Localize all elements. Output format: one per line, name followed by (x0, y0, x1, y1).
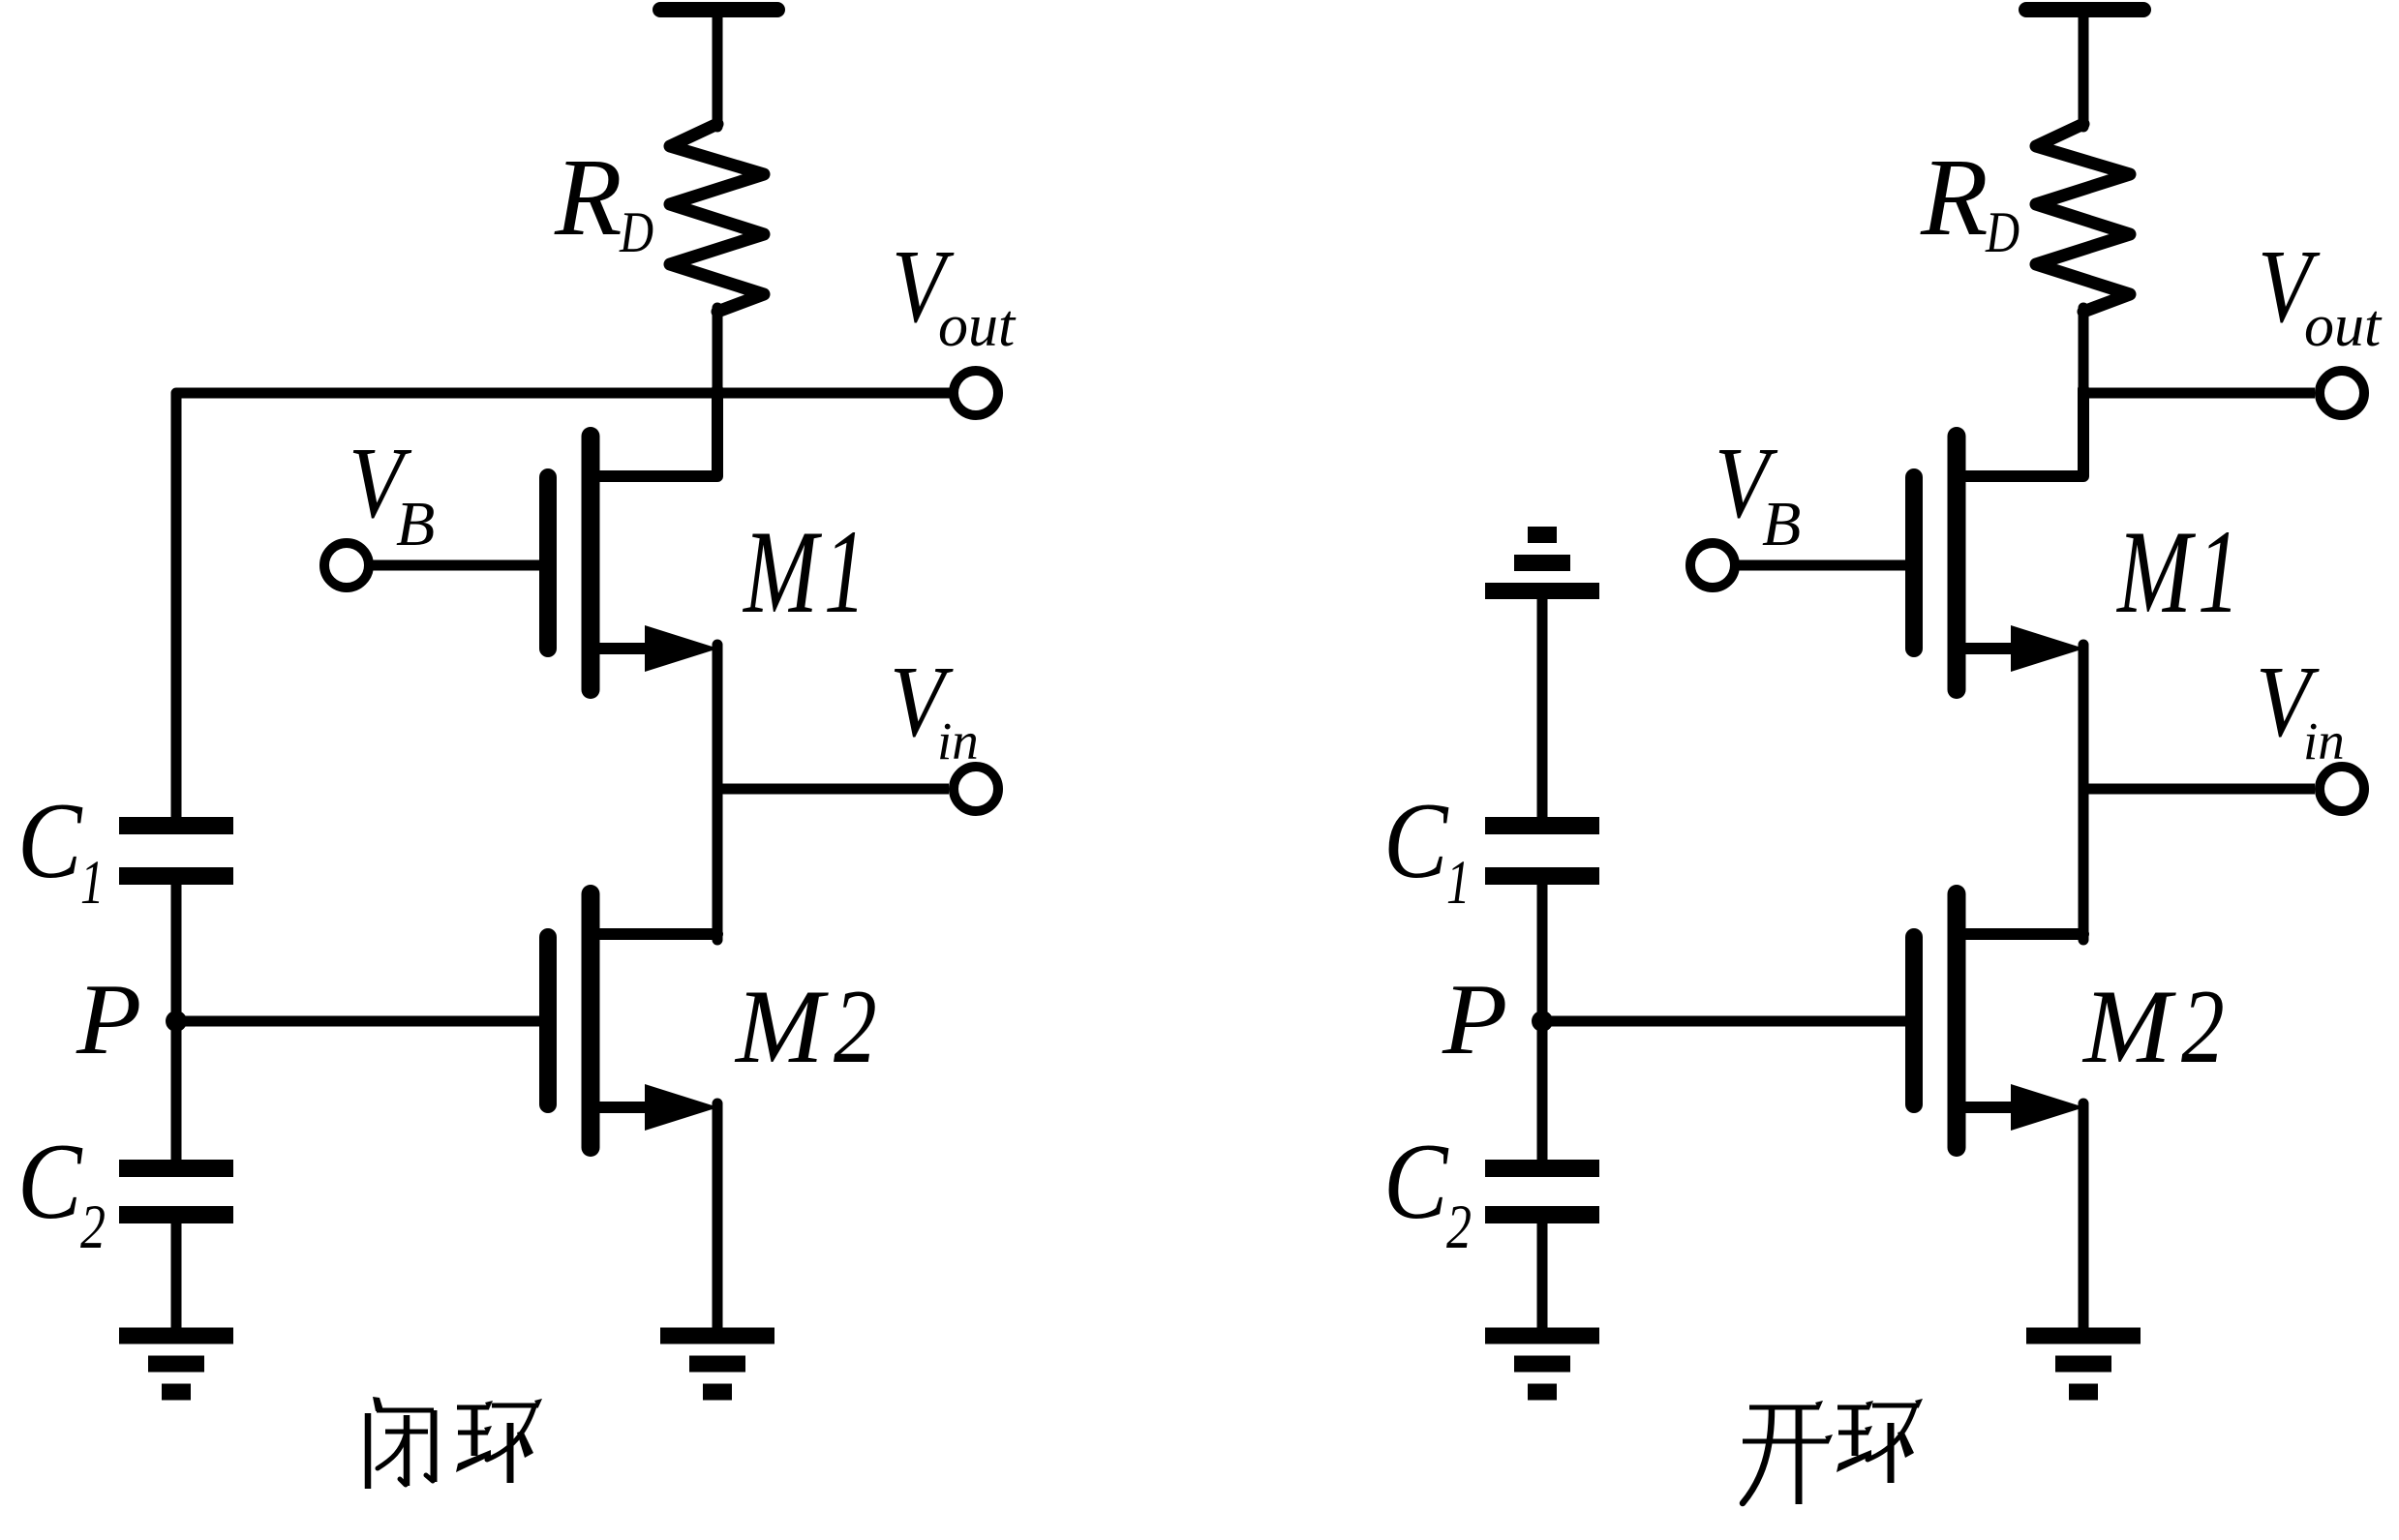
svg-text:M: M (2115, 505, 2196, 638)
ground at M2 source (left) (660, 1328, 774, 1344)
wire Vin (left) (717, 784, 949, 795)
terminal Vin (left) (954, 767, 998, 811)
wire M1 source to M2 drain (right) (2079, 645, 2089, 940)
svg-text:out: out (938, 293, 1017, 359)
capacitor C1 (right) (1485, 817, 1599, 834)
svg-text:out: out (2304, 293, 2383, 359)
wire C2 to ground (right) (1537, 1222, 1548, 1330)
AC ground above C1 (right) (1485, 583, 1599, 599)
terminal Vin (right) (2320, 767, 2364, 811)
svg-text:R: R (1920, 136, 1989, 258)
wire M2 source to ground (right) (2079, 1103, 2089, 1330)
wire M2 source to ground (left) (713, 1103, 723, 1330)
svg-text:C: C (17, 1122, 83, 1242)
wire C2 to ground (left) (171, 1222, 182, 1330)
svg-text:D: D (619, 199, 653, 264)
capacitor C2 (left) (119, 1160, 233, 1177)
svg-text:M: M (734, 968, 829, 1085)
capacitor C2 (right) (1485, 1160, 1599, 1177)
caption closed-loop (bi huan) (373, 1397, 383, 1411)
wire node P to M2 gate (right) (1542, 1016, 1906, 1027)
node P (right) (1532, 1011, 1553, 1032)
wire M2 drain stub (right) (1966, 928, 2083, 940)
svg-text:M: M (742, 505, 822, 638)
wire node P to C2 (left) (171, 1021, 182, 1160)
wire AC ground to C1 (right) (1537, 597, 1548, 821)
svg-text:P: P (76, 963, 141, 1075)
wire M1 drain elbow (left) (600, 389, 717, 476)
svg-text:2: 2 (834, 968, 877, 1085)
wire VB to M1 gate (right) (1740, 560, 1906, 571)
svg-text:P: P (1442, 963, 1507, 1075)
svg-text:2: 2 (80, 1193, 106, 1262)
svg-text:in: in (2303, 711, 2345, 770)
capacitor C1 (left) (119, 817, 233, 834)
svg-text:B: B (1762, 489, 1801, 559)
svg-text:1: 1 (1446, 848, 1470, 917)
terminal VB (left) (324, 543, 369, 588)
svg-text:M: M (2081, 968, 2176, 1085)
svg-text:1: 1 (824, 506, 865, 639)
svg-text:1: 1 (80, 848, 104, 917)
power rail VDD (left) (660, 2, 777, 17)
wire node P to C2 (right) (1537, 1021, 1548, 1160)
svg-text:C: C (1383, 1122, 1449, 1242)
terminal VB (right) (1690, 543, 1735, 588)
wire Vin (right) (2083, 784, 2315, 795)
wire Vout node to terminal (right) (2083, 388, 2315, 399)
resistor RD (right) (2036, 124, 2130, 312)
wire VDD to RD (left) (713, 10, 723, 127)
transistor M1 (left) (539, 477, 557, 649)
ground below C2 (right) (1485, 1328, 1599, 1344)
wire VDD to RD (right) (2079, 10, 2089, 127)
svg-text:D: D (1985, 199, 2019, 264)
transistor M1 (right) (1905, 477, 1923, 649)
svg-text:R: R (554, 136, 623, 258)
wire C1 to node P (right) (1537, 883, 1548, 1021)
transistor M2 (left) (539, 937, 557, 1104)
power rail VDD (right) (2026, 2, 2143, 17)
wire VB to M1 gate (left) (374, 560, 540, 571)
wire M2 drain stub (left) (600, 928, 717, 940)
resistor RD (left) (670, 124, 764, 312)
svg-text:B: B (396, 489, 435, 559)
wire M1 source to M2 drain (left) (713, 645, 723, 940)
svg-text:2: 2 (2181, 968, 2225, 1085)
wire Vout node to terminal (left) (717, 388, 949, 399)
terminal Vout (right) (2320, 371, 2364, 415)
wire RD to Vout node (left) (713, 308, 723, 397)
wire M1 drain elbow (right) (1966, 389, 2083, 476)
wire RD to Vout node (right) (2079, 308, 2089, 397)
ground at M2 source (right) (2026, 1328, 2141, 1344)
svg-text:C: C (1383, 781, 1449, 901)
caption open-loop (kai huan) (1749, 1405, 1819, 1410)
terminal Vout (left) (954, 371, 998, 415)
feedback wire Vout to C1 (left) (176, 393, 949, 821)
svg-text:C: C (17, 781, 83, 901)
transistor M2 (right) (1905, 937, 1923, 1104)
wire C1 to node P (left) (171, 883, 182, 1021)
svg-text:2: 2 (1446, 1193, 1472, 1262)
node P (left) (166, 1011, 187, 1032)
svg-text:in: in (937, 711, 979, 770)
wire node P to M2 gate (left) (176, 1016, 540, 1027)
ground below C2 (left) (119, 1328, 233, 1344)
svg-text:1: 1 (2198, 506, 2239, 639)
